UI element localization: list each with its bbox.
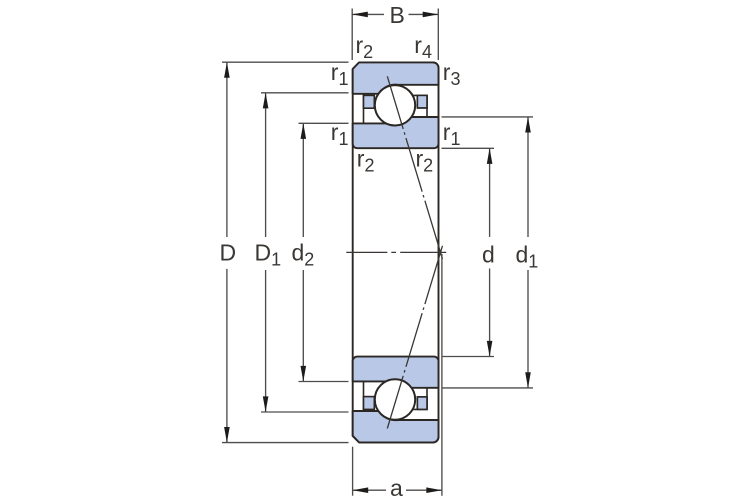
- bottom bearing section (mirror): [353, 246, 443, 443]
- svg-text:D1: D1: [255, 240, 282, 270]
- dimension d2: line and arrows: [302, 123, 304, 237]
- svg-text:r1: r1: [331, 59, 349, 89]
- dimension a: line and arrows: [353, 489, 386, 491]
- top bearing section: [353, 62, 443, 259]
- dimension D: extension lines: [222, 61, 349, 63]
- dimension d: extension lines: [442, 147, 495, 149]
- svg-text:r1: r1: [443, 119, 461, 149]
- svg-text:a: a: [390, 475, 403, 501]
- dimension D: line and arrows: [226, 62, 228, 237]
- dimension d1: extension lines: [442, 116, 534, 118]
- dimension d1: line and arrows: [527, 117, 529, 237]
- axis centerline: [346, 251, 446, 253]
- svg-text:d2: d2: [292, 240, 315, 270]
- dimension d: line and arrows: [489, 148, 491, 237]
- svg-text:D: D: [220, 240, 237, 266]
- dimension B: extension lines: [351, 9, 353, 61]
- svg-text:r3: r3: [443, 59, 461, 89]
- dimension D1: extension lines: [261, 92, 349, 94]
- svg-text:r4: r4: [414, 32, 432, 62]
- dimension D1: line and arrows: [265, 93, 267, 237]
- svg-text:B: B: [390, 2, 405, 28]
- dimension B: line and arrows: [352, 13, 384, 15]
- bearing outline (faces and OD/bore silhouette): [353, 62, 439, 442]
- svg-text:d1: d1: [516, 242, 539, 272]
- dimension a: extension lines: [352, 447, 354, 496]
- dimension d2: extension lines: [299, 122, 349, 124]
- svg-text:d: d: [482, 242, 495, 268]
- svg-text:r2: r2: [356, 32, 374, 62]
